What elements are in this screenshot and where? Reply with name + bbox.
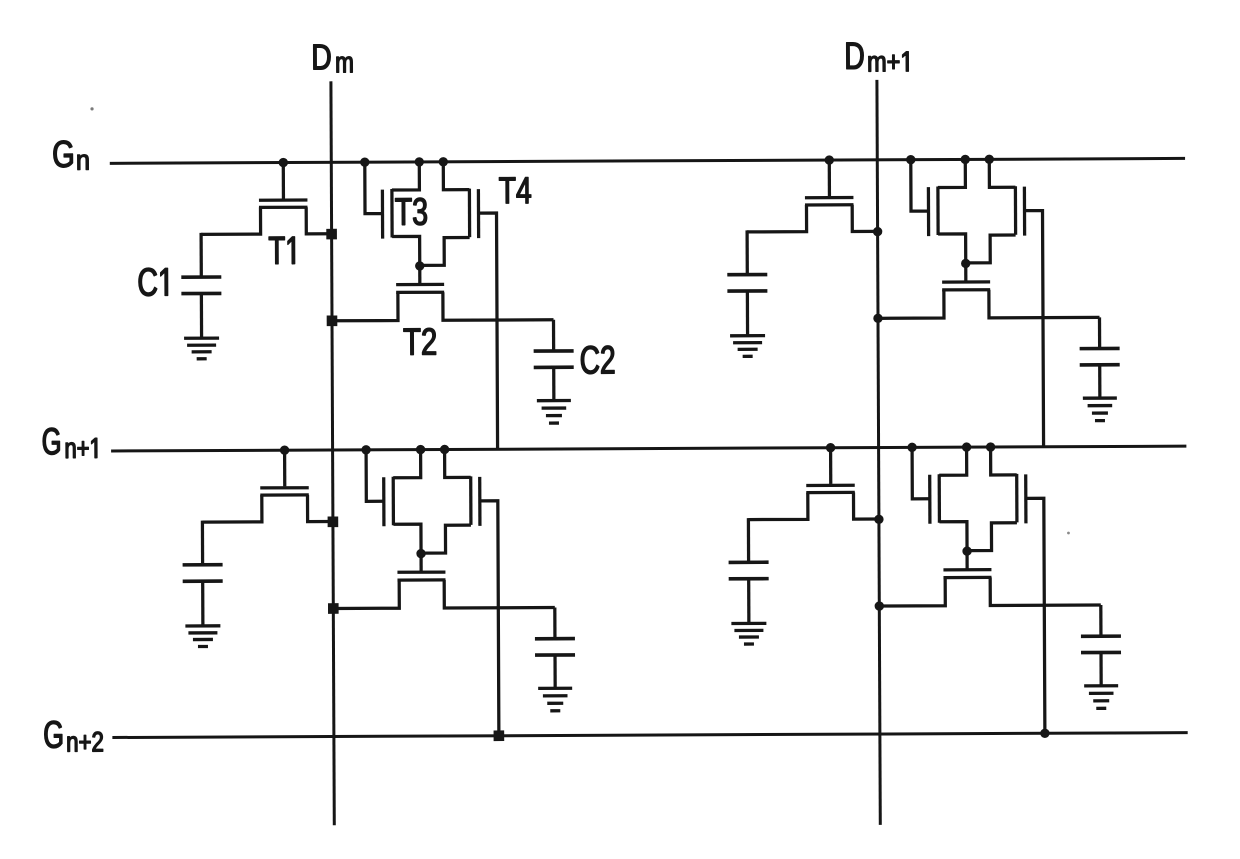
transistor T1 gate bar (cell 2) (805, 196, 853, 199)
transistor T3 gate bar (cell 2) (927, 187, 930, 236)
capacitor C1 bottom plate (cell 1) (181, 292, 221, 296)
transistor T4 channel bar (cell 1) (468, 189, 471, 237)
ground below C2 (cell 4) (1084, 686, 1118, 709)
node: T4 gate lead on lower gate line (cell 4) (1040, 729, 1049, 738)
node: T2 source on data line (cell 4) (875, 601, 884, 610)
node: T4 drain tap on gate line (cell 1) (439, 157, 448, 166)
node: T4 drain tap on gate line (cell 3) (440, 445, 449, 454)
scan speck 1 (90, 107, 93, 110)
wire: T3 gate lead (cell 2) (911, 160, 929, 212)
capacitor C2 top plate (cell 3) (535, 637, 575, 641)
transistor T2 gate bar (cell 3) (397, 570, 445, 573)
wire: T4 gate lead down to next gate line (cell 4) (1026, 498, 1045, 733)
wire: T1 gate lead (cell 3) (283, 450, 286, 486)
transistor T4 channel bar (cell 4) (1015, 474, 1018, 522)
transistor T3 channel bar (cell 1) (390, 189, 393, 237)
wire: T2 source to data line (cell 4) (879, 578, 945, 606)
wire: T3 gate lead (cell 1) (365, 162, 383, 214)
wire: T4 drain stub (cell 3) (445, 449, 471, 477)
transistor T1 channel bar (cell 4) (806, 491, 854, 494)
wire: T1 drain to data line (cell 4) (853, 492, 878, 519)
label Dm+1 (847, 42, 909, 71)
wire: T4 source stub (cell 1) (420, 237, 470, 265)
label T1 (269, 237, 295, 264)
label T3 (395, 198, 426, 225)
wire: T1 drain to data line (cell 3) (307, 495, 332, 522)
capacitor C1 top plate (cell 1) (181, 275, 221, 279)
transistor T3 channel bar (cell 3) (392, 477, 395, 525)
capacitor C1 top plate (cell 4) (729, 560, 769, 564)
wire: T2 source to data line (cell 1) (332, 292, 398, 320)
node: T1 drain on data line (cell 3) (328, 516, 339, 527)
ground below C2 (cell 3) (538, 688, 572, 711)
capacitor C1 bottom plate (cell 3) (183, 579, 223, 583)
wire: T3 source stub (cell 1) (392, 236, 420, 266)
wire: T3 drain stub (cell 3) (393, 450, 421, 478)
wire: T3 drain stub (cell 4) (939, 447, 967, 475)
node: T2 source on data line (cell 1) (327, 315, 338, 326)
wire: T2 drain to C2 (cell 2) (989, 289, 1100, 318)
transistor T3 channel bar (cell 2) (936, 187, 939, 235)
wire: T1 source to C1 (cell 2) (747, 205, 807, 232)
capacitor C1 bottom plate (cell 4) (729, 577, 769, 581)
transistor T4 gate bar (cell 3) (478, 477, 481, 526)
ground below C2 (cell 2) (1083, 398, 1117, 421)
pixel cell 2 (727, 154, 1120, 448)
wire: T2 source to data line (cell 2) (878, 290, 944, 318)
wire: C1 to ground (cell 4) (747, 579, 750, 623)
transistor T3 gate bar (cell 4) (928, 475, 931, 524)
wire: T3 gate lead (cell 4) (912, 447, 930, 499)
node: T3 drain tap on gate line (cell 1) (415, 157, 424, 166)
wire: T2 source to data line (cell 3) (333, 580, 399, 608)
wire: T3 drain stub (cell 1) (392, 162, 420, 190)
label Gn+2 (45, 721, 103, 752)
wire: T4 gate lead down to next gate line (cell 2) (1025, 211, 1044, 447)
transistor T4 gate bar (cell 4) (1024, 474, 1027, 523)
node: T3/T4 source junction (cell 2) (961, 259, 970, 268)
wire: T2 drain to C2 (cell 3) (444, 579, 555, 608)
capacitor C1 top plate (cell 3) (183, 563, 223, 567)
wire: T4 source stub (cell 3) (421, 525, 471, 553)
wire: T2 drain to C2 (cell 1) (443, 292, 554, 321)
node: T4 gate lead on lower gate line (cell 3) (494, 730, 505, 741)
wire: T2 gate lead (cell 3) (419, 554, 422, 572)
wire: T3 source stub (cell 4) (939, 522, 967, 552)
wire: C2 to ground (cell 3) (553, 655, 556, 688)
wire: T1 source to C1 (cell 3) (202, 495, 262, 522)
ground below C1 (cell 4) (731, 623, 766, 644)
node: T1 gate tap on gate line (cell 2) (825, 155, 834, 164)
transistor T2 channel bar (cell 2) (942, 288, 990, 291)
node: T3 drain tap on gate line (cell 3) (416, 445, 425, 454)
node: T1 gate tap on gate line (cell 1) (279, 158, 288, 167)
wire: T3 source stub (cell 3) (393, 524, 421, 554)
node: T3/T4 source junction (cell 3) (416, 549, 425, 558)
node: T3/T4 source junction (cell 4) (962, 546, 971, 555)
transistor T2 channel bar (cell 4) (943, 576, 991, 579)
transistor T3 channel bar (cell 4) (938, 474, 941, 522)
label Gn (54, 141, 89, 170)
transistor T1 channel bar (cell 3) (260, 493, 308, 496)
node: T2 source on data line (cell 2) (873, 314, 882, 323)
wire: T3 source stub (cell 2) (938, 234, 966, 264)
node: T1 drain on data line (cell 4) (874, 515, 883, 524)
scan speck 2 (1067, 532, 1070, 535)
ground below C1 (cell 3) (185, 626, 220, 647)
wire: T4 drain stub (cell 1) (443, 162, 469, 190)
ground below C1 (cell 1) (184, 338, 219, 359)
label Dm (314, 45, 353, 73)
wire: T2 drain to C2 (cell 4) (990, 577, 1101, 606)
wire: T4 gate lead down to next gate line (cell 3) (480, 501, 499, 736)
transistor T1 channel bar (cell 1) (259, 206, 307, 209)
ground below C2 (cell 1) (537, 401, 571, 424)
wire: T1 gate lead (cell 2) (828, 160, 831, 196)
wire: T1 source to C1 (cell 1) (201, 207, 261, 234)
wire: C2 to ground (cell 2) (1098, 365, 1101, 398)
wire: C2 riser (cell 1) (552, 320, 555, 351)
label T2 (404, 328, 436, 355)
node: T3 drain tap on gate line (cell 2) (961, 155, 970, 164)
wire: T1 gate lead (cell 4) (829, 448, 832, 484)
node: T2 source on data line (cell 3) (328, 603, 339, 614)
node: T1 drain on data line (cell 1) (326, 229, 337, 240)
node: T4 drain tap on gate line (cell 4) (986, 442, 995, 451)
node: T3/T4 source junction (cell 1) (415, 261, 424, 270)
label Gn+1 (43, 428, 97, 458)
wire: T4 source stub (cell 4) (967, 523, 1017, 551)
node: T3 gate tap on gate line (cell 2) (906, 155, 915, 164)
label C2 (581, 346, 614, 374)
capacitor C2 top plate (cell 4) (1081, 634, 1121, 638)
wire: T2 gate lead (cell 1) (418, 266, 421, 284)
capacitor C1 bottom plate (cell 2) (727, 289, 767, 293)
transistor T4 gate bar (cell 2) (1023, 187, 1026, 236)
node: T3 gate tap on gate line (cell 3) (361, 445, 370, 454)
wire: C2 riser (cell 2) (1098, 317, 1101, 348)
capacitor C2 bottom plate (cell 2) (1080, 363, 1120, 367)
capacitor C2 bottom plate (cell 1) (534, 365, 574, 369)
transistor T1 gate bar (cell 1) (259, 198, 307, 201)
wire: C1 riser (cell 1) (199, 233, 202, 277)
node: T3 drain tap on gate line (cell 4) (962, 442, 971, 451)
transistor T4 channel bar (cell 2) (1014, 186, 1017, 234)
wire: T4 source stub (cell 2) (966, 235, 1016, 263)
wire: C1 to ground (cell 3) (201, 581, 204, 625)
transistor T1 gate bar (cell 4) (806, 484, 854, 487)
transistor T2 channel bar (cell 3) (397, 578, 445, 581)
transistor T2 gate bar (cell 1) (396, 283, 444, 286)
label T4 (499, 177, 531, 203)
wire: T4 drain stub (cell 4) (991, 447, 1017, 475)
ground below C1 (cell 2) (730, 336, 765, 357)
node: T1 gate tap on gate line (cell 3) (280, 446, 289, 455)
transistor T3 gate bar (cell 1) (381, 190, 384, 239)
transistor T2 channel bar (cell 1) (396, 291, 444, 294)
wire: C1 riser (cell 3) (201, 521, 204, 565)
gate line Gn+1 (111, 446, 1186, 451)
transistor T1 gate bar (cell 3) (260, 486, 308, 489)
wire: T1 drain to data line (cell 2) (852, 205, 877, 232)
capacitor C2 top plate (cell 2) (1080, 347, 1120, 351)
node: T4 drain tap on gate line (cell 2) (985, 155, 994, 164)
capacitor C2 bottom plate (cell 4) (1081, 651, 1121, 655)
node: T3 gate tap on gate line (cell 1) (360, 157, 369, 166)
wire: T1 drain to data line (cell 1) (306, 207, 331, 234)
transistor T2 gate bar (cell 4) (943, 568, 991, 571)
transistor T4 channel bar (cell 3) (469, 476, 472, 524)
wire: T1 gate lead (cell 1) (282, 163, 285, 199)
gate line Gn (110, 158, 1185, 163)
wire: C2 riser (cell 4) (1099, 605, 1102, 636)
transistor T2 gate bar (cell 2) (942, 280, 990, 283)
node: T1 drain on data line (cell 2) (873, 227, 882, 236)
label C1 (139, 268, 168, 296)
wire: C2 to ground (cell 1) (552, 367, 555, 400)
data line Dm (331, 81, 334, 825)
wire: T4 drain stub (cell 2) (989, 159, 1015, 187)
wire: T3 gate lead (cell 3) (366, 450, 384, 502)
pixel cell 4 (728, 442, 1121, 740)
transistor T3 gate bar (cell 3) (382, 477, 385, 526)
transistor T1 channel bar (cell 2) (805, 203, 853, 206)
node: T3 gate tap on gate line (cell 4) (907, 443, 916, 452)
gate line Gn+2 (112, 733, 1187, 738)
wire: T4 gate lead down to next gate line (cell 1) (479, 213, 498, 449)
wire: C2 riser (cell 3) (553, 607, 556, 638)
wire: T2 gate lead (cell 2) (964, 263, 967, 281)
wire: C2 to ground (cell 4) (1099, 653, 1102, 686)
pixel cell 1 (181, 157, 574, 451)
wire: T1 source to C1 (cell 4) (748, 493, 808, 520)
wire: C1 to ground (cell 1) (200, 293, 203, 337)
wire: T2 gate lead (cell 4) (965, 551, 968, 569)
wire: C1 riser (cell 4) (747, 518, 750, 562)
pixel cell 3 (182, 444, 575, 742)
wire: C1 riser (cell 2) (745, 230, 748, 274)
transistor T4 gate bar (cell 1) (477, 189, 480, 238)
capacitor C2 top plate (cell 1) (534, 349, 574, 353)
wire: C1 to ground (cell 2) (746, 291, 749, 335)
wire: T3 drain stub (cell 2) (938, 159, 966, 187)
node: T1 gate tap on gate line (cell 4) (826, 443, 835, 452)
data line Dm+1 (877, 80, 880, 825)
capacitor C2 bottom plate (cell 3) (535, 653, 575, 657)
capacitor C1 top plate (cell 2) (727, 273, 767, 277)
